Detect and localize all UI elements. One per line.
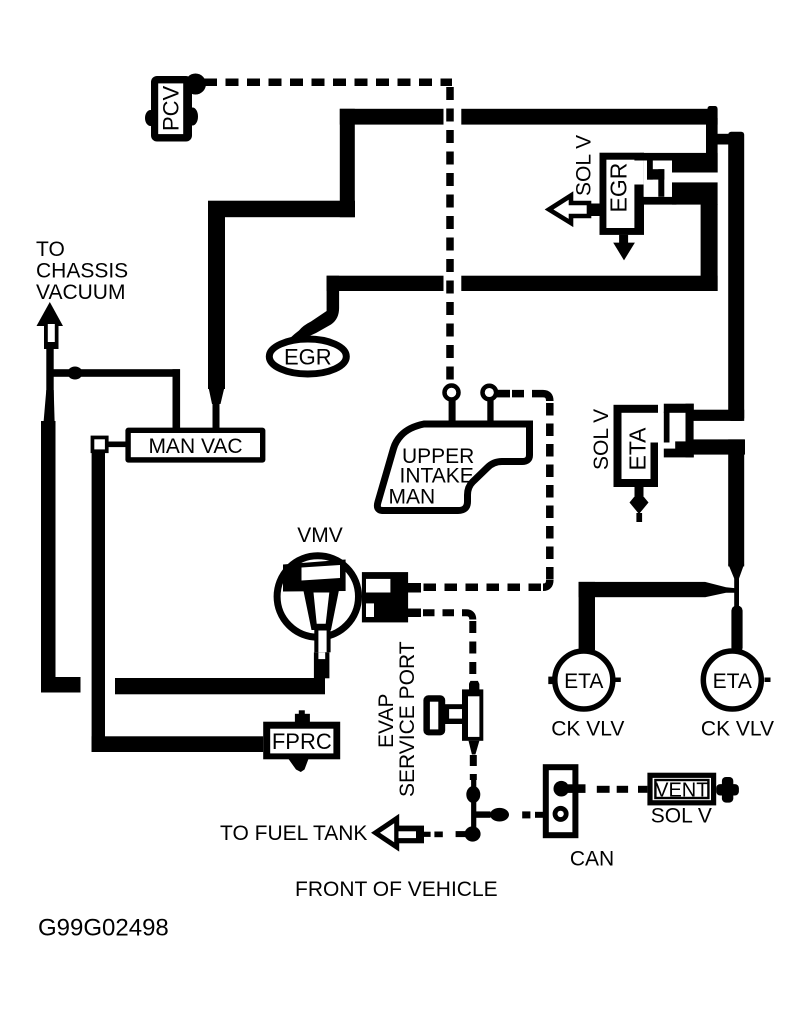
bottom hose VMV to lines: [115, 678, 325, 694]
hose to left check valve with taper tip: [579, 582, 736, 650]
svg-text:INTAKE: INTAKE: [400, 465, 474, 488]
hose end drop to EGR solenoid top port: [706, 106, 741, 173]
svg-text:ETA: ETA: [564, 670, 603, 693]
VENT solenoid box: [647, 773, 716, 828]
svg-text:VMV: VMV: [297, 524, 343, 547]
hose top line left segment: [340, 109, 444, 125]
junction vertical line: [471, 777, 476, 837]
svg-text:SOL V: SOL V: [651, 805, 712, 828]
dashed hose PCV to intake port (horizontal): [204, 79, 452, 87]
dashed hose PCV to intake port (vertical): [446, 87, 454, 382]
EVAP SERVICE PORT label: [375, 641, 419, 797]
junction diamond upper: [466, 786, 480, 803]
svg-text:SOL V: SOL V: [573, 135, 596, 196]
dashed CAN to VENT solenoid: [597, 786, 648, 793]
dashed hose port 2 to VMV top port: [421, 390, 550, 588]
ETA solenoid lower port elbow: [692, 439, 745, 454]
hose MAN VAC to EGR solenoid: riser: [340, 109, 355, 217]
ETA solenoid fitting: [664, 404, 694, 458]
dashed branch to CAN: [476, 808, 544, 822]
svg-text:CAN: CAN: [570, 848, 614, 871]
svg-text:VENT: VENT: [655, 780, 708, 802]
svg-text:EVAP: EVAP: [375, 694, 398, 748]
svg-text:MAN VAC: MAN VAC: [148, 435, 242, 458]
PCV valve: [145, 74, 206, 142]
manifold port stubs: [449, 399, 494, 426]
right vertical hose upper run: [728, 132, 744, 421]
junction blob lower: [465, 826, 481, 841]
fuel tank outline arrow: [376, 819, 425, 848]
left ETA check valve: [548, 651, 624, 741]
EGR solenoid down arrow: [613, 235, 635, 261]
ETA solenoid down arrow: [630, 487, 649, 522]
hose square connector to FPRC (line 2): [92, 452, 264, 752]
manifold port circle 1: [445, 386, 459, 400]
right ETA check valve: [701, 651, 774, 741]
svg-text:SERVICE PORT: SERVICE PORT: [396, 641, 419, 797]
VMV valve body: [277, 556, 358, 637]
CAN canister box: [543, 764, 614, 870]
EGR valve ellipse: [269, 339, 346, 374]
hose EGR solenoid to EGR valve: horizontal segments: [461, 276, 717, 291]
svg-text:SOL V: SOL V: [590, 409, 613, 470]
svg-text:FRONT OF VEHICLE: FRONT OF VEHICLE: [295, 878, 498, 901]
EGR solenoid bottom port bar: [644, 182, 718, 204]
svg-text:EGR: EGR: [606, 163, 632, 213]
dashed EVAP port down to junction: [470, 755, 477, 780]
svg-text:EGR: EGR: [284, 345, 332, 370]
svg-text:ETA: ETA: [625, 427, 651, 471]
svg-text:PCV: PCV: [159, 85, 184, 131]
TO CHASSIS VACUUM label: [36, 238, 128, 304]
junction dot: [68, 367, 83, 380]
ETA solenoid upper port elbow: [692, 410, 744, 421]
manifold port circle 2: [483, 386, 497, 400]
right vertical hose lower run with taper: [728, 439, 744, 652]
thin line junction to MAN VAC: [50, 369, 180, 428]
hose MAN VAC to EGR solenoid: stub at MAN VAC: [208, 385, 225, 429]
chassis vacuum line (line 1): [41, 347, 81, 693]
hose MAN VAC to EGR solenoid: vertical run: [208, 201, 225, 389]
hose top line right segment: [461, 109, 717, 125]
svg-text:MAN: MAN: [389, 486, 436, 509]
VMV bottom stem: [314, 628, 331, 678]
svg-text:CK VLV: CK VLV: [551, 718, 624, 741]
dashed to fuel tank arrow: [423, 831, 466, 837]
MAN VAC box: [125, 428, 265, 463]
svg-text:TO: TO: [36, 238, 65, 261]
EGR solenoid outline arrow: [549, 196, 601, 224]
svg-text:CK VLV: CK VLV: [701, 718, 774, 741]
svg-text:ETA: ETA: [713, 670, 752, 693]
svg-text:VACUUM: VACUUM: [36, 281, 125, 304]
svg-text:FPRC: FPRC: [272, 729, 332, 754]
dashed hose VMV bottom port to EVAP service port: [423, 613, 473, 684]
ETA solenoid box: [614, 405, 664, 487]
hose MAN VAC to EGR solenoid: lower horizontal: [208, 201, 355, 218]
hose elbow into EGR valve: [282, 276, 340, 348]
EGR solenoid box: [600, 153, 673, 235]
VMV right fitting: [362, 572, 421, 622]
upper intake manifold shape: [377, 424, 529, 511]
square connector at MAN VAC: [91, 436, 126, 454]
VENT cross fitting: [716, 777, 739, 803]
svg-text:G99G02498: G99G02498: [38, 915, 169, 942]
EGR solenoid top port bar: [640, 153, 718, 173]
svg-text:TO FUEL TANK: TO FUEL TANK: [220, 822, 367, 845]
svg-text:CHASSIS: CHASSIS: [36, 260, 128, 283]
EVAP service port symbol: [423, 681, 483, 755]
chassis vacuum arrow: [37, 302, 64, 349]
hose EGR solenoid to EGR valve: right riser: [701, 204, 718, 291]
FPRC box: [263, 710, 340, 772]
